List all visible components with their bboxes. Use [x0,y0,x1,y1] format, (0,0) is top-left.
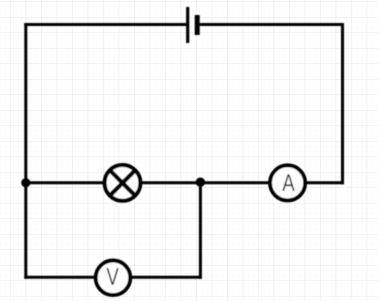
wire: middle vertical (center junction down to bottom wire) [199,181,202,279]
wire: left vertical (top-left corner down to bottom-left corner) [24,23,27,279]
junction node: center (middle wire meets vertical branch) [196,178,205,187]
ammeter M1: letter A [282,174,295,190]
wire: middle horizontal (left junction through lamp and ammeter to right wire) [24,181,344,184]
wire: right vertical (top-right corner down to ammeter row) [341,23,344,184]
battery B1: short negative plate [195,15,200,35]
junction node: left (middle wire meets left wire) [21,178,30,187]
wire: bottom horizontal (bottom-left corner through voltmeter to middle vertical) [24,276,202,279]
wire: top-right horizontal (battery negative plate to top-right corner) [200,23,344,26]
battery B1: long positive plate [186,7,189,43]
wire: top-left horizontal (top-left corner to battery positive plate) [24,23,186,26]
voltmeter M2: letter V [106,268,118,285]
lamp L1: circle body [105,165,141,201]
ammeter M1: circle body [270,165,305,200]
lamp L1: cross stroke 1 [110,170,135,195]
voltmeter M2: circle body [96,261,131,296]
lamp L1: cross stroke 2 [110,170,135,195]
